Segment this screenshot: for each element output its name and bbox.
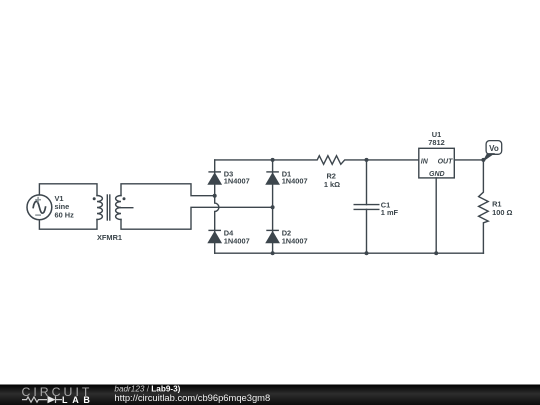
svg-text:1N4007: 1N4007 [282, 177, 308, 186]
svg-text:60 Hz: 60 Hz [55, 210, 75, 219]
svg-text:GND: GND [429, 171, 445, 178]
svg-text:IN: IN [421, 158, 429, 165]
svg-text:OUT: OUT [438, 158, 454, 165]
svg-text:XFMR1: XFMR1 [97, 233, 122, 242]
svg-text:7812: 7812 [428, 138, 444, 147]
svg-text:1N4007: 1N4007 [224, 177, 250, 186]
svg-text:1 kΩ: 1 kΩ [324, 180, 340, 189]
svg-text:1 mF: 1 mF [381, 208, 399, 217]
svg-text:100 Ω: 100 Ω [492, 208, 512, 217]
svg-text:1N4007: 1N4007 [224, 236, 250, 245]
svg-text:Vo: Vo [489, 144, 499, 153]
svg-text:LAB: LAB [62, 395, 95, 405]
svg-text:http://circuitlab.com/cb96p6mq: http://circuitlab.com/cb96p6mqe3gm8 [114, 392, 270, 403]
svg-text:1N4007: 1N4007 [282, 236, 308, 245]
